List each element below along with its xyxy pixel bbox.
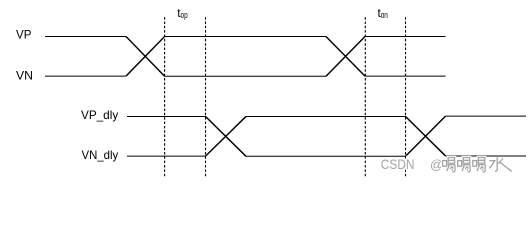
svg-text:op: op (181, 10, 188, 20)
svg-text:VN_dly: VN_dly (82, 148, 119, 162)
watermark hanzi 喝 #3 halo (473, 158, 485, 172)
svg-text:on: on (381, 10, 388, 20)
dashed marker line 3 (t_on left) (364, 17, 366, 176)
svg-text:CSDN: CSDN (381, 156, 415, 172)
svg-text:VP: VP (16, 28, 31, 42)
VP_dly waveform falling/rising edges (206, 116, 446, 156)
VN_dly waveform rising/falling edges (206, 116, 446, 156)
dashed marker line 2 (start of output crossing, t_op right) (205, 17, 207, 176)
svg-text:VN: VN (16, 68, 33, 82)
watermark hanzi 水 (489, 157, 511, 171)
watermark hanzi 喝 #3 (473, 158, 485, 172)
VN_dly waveform horizontal segments (127, 116, 526, 156)
VP waveform falling/rising edges (126, 36, 365, 76)
dashed marker line 4 (t_on right) (405, 17, 407, 176)
watermark hanzi 喝 #2 (458, 158, 470, 172)
VP waveform horizontal segments (45, 36, 446, 76)
VN waveform horizontal segments (45, 36, 446, 76)
svg-text:VP_dly: VP_dly (81, 108, 118, 122)
watermark hanzi 水 halo (489, 157, 511, 171)
VP_dly waveform horizontal segments (127, 116, 526, 156)
watermark hanzi 喝 #1 (443, 158, 455, 172)
watermark hanzi 喝 #1 halo (443, 158, 455, 172)
VN waveform rising/falling edges (126, 36, 365, 76)
watermark hanzi 喝 #2 halo (458, 158, 470, 172)
dashed marker line 1 (end of input crossing, t_op left) (164, 17, 166, 176)
